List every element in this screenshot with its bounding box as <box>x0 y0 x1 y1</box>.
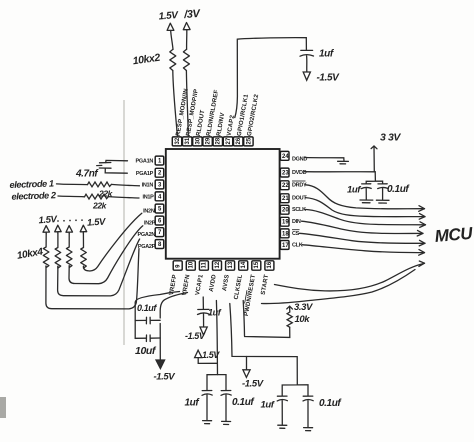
svg-text:DOUT: DOUT <box>292 196 307 202</box>
svg-text:14: 14 <box>241 261 247 268</box>
svg-text:PGA2P: PGA2P <box>138 244 156 250</box>
svg-text:-1.5V: -1.5V <box>185 331 206 341</box>
svg-text:IN2N: IN2N <box>143 209 155 215</box>
svg-text:1.5V: 1.5V <box>38 214 58 226</box>
svg-text:1.5V: 1.5V <box>87 216 107 228</box>
svg-text:-1.5V: -1.5V <box>242 379 264 390</box>
svg-text:15: 15 <box>254 261 260 268</box>
svg-text:16: 16 <box>267 261 273 268</box>
svg-text:CS: CS <box>292 231 300 237</box>
svg-text:18: 18 <box>282 231 289 237</box>
svg-text:electrode 1: electrode 1 <box>9 178 54 190</box>
svg-text:29: 29 <box>206 137 212 144</box>
svg-text:IN2P: IN2P <box>144 221 156 227</box>
svg-text:PGA2N: PGA2N <box>138 232 156 238</box>
svg-text:-1.5V: -1.5V <box>154 371 176 382</box>
svg-text:/3V: /3V <box>183 8 202 21</box>
svg-text:11: 11 <box>202 261 208 268</box>
svg-text:MCU: MCU <box>434 224 474 246</box>
svg-text:23: 23 <box>282 171 289 177</box>
svg-text:21: 21 <box>282 196 289 202</box>
svg-text:3 3V: 3 3V <box>380 131 401 143</box>
svg-text:10uf: 10uf <box>135 345 157 357</box>
svg-text:0.1uf: 0.1uf <box>319 398 342 409</box>
svg-text:1uf: 1uf <box>319 49 335 60</box>
svg-text:0.1uf: 0.1uf <box>387 184 410 195</box>
svg-text:30: 30 <box>195 137 201 144</box>
svg-text:1uf: 1uf <box>347 184 361 195</box>
svg-text:12: 12 <box>215 261 221 268</box>
svg-text:PGA1P: PGA1P <box>136 171 154 177</box>
svg-text:1.5V: 1.5V <box>158 10 179 22</box>
svg-text:electrode 2: electrode 2 <box>11 190 57 202</box>
svg-text:0.1uf: 0.1uf <box>232 397 255 408</box>
svg-text:31: 31 <box>185 137 191 144</box>
svg-text:22k: 22k <box>92 201 108 211</box>
svg-text:0.1uf: 0.1uf <box>137 303 157 313</box>
svg-text:DVDD: DVDD <box>292 170 307 176</box>
svg-text:27: 27 <box>226 137 232 144</box>
svg-text:22: 22 <box>282 183 289 189</box>
svg-text:10: 10 <box>189 261 195 268</box>
svg-text:25: 25 <box>246 137 252 144</box>
svg-text:26: 26 <box>236 137 242 144</box>
svg-text:32: 32 <box>175 137 181 144</box>
svg-text:1uf: 1uf <box>185 398 201 409</box>
svg-text:4.7nf: 4.7nf <box>75 169 99 180</box>
svg-text:PGA1N: PGA1N <box>136 159 154 165</box>
svg-text:22k: 22k <box>98 189 114 199</box>
svg-text:1.5V: 1.5V <box>202 350 220 360</box>
svg-text:10k: 10k <box>295 314 311 325</box>
svg-text:19: 19 <box>282 220 289 226</box>
svg-text:IN1P: IN1P <box>142 194 154 200</box>
svg-text:24: 24 <box>282 154 289 160</box>
svg-text:DIN: DIN <box>292 219 301 225</box>
svg-text:-1.5V: -1.5V <box>317 73 341 84</box>
svg-text:1uf: 1uf <box>261 400 275 411</box>
svg-text:DRDY: DRDY <box>292 183 307 189</box>
svg-text:13: 13 <box>228 261 234 268</box>
svg-text:CLK: CLK <box>292 243 303 249</box>
svg-text:28: 28 <box>216 137 222 144</box>
svg-text:IN1N: IN1N <box>142 183 154 189</box>
svg-text:20: 20 <box>282 208 289 214</box>
svg-text:3.3V: 3.3V <box>294 302 313 313</box>
svg-text:1uf: 1uf <box>208 308 222 318</box>
svg-text:17: 17 <box>282 243 289 249</box>
svg-text:SCLK: SCLK <box>292 207 306 213</box>
